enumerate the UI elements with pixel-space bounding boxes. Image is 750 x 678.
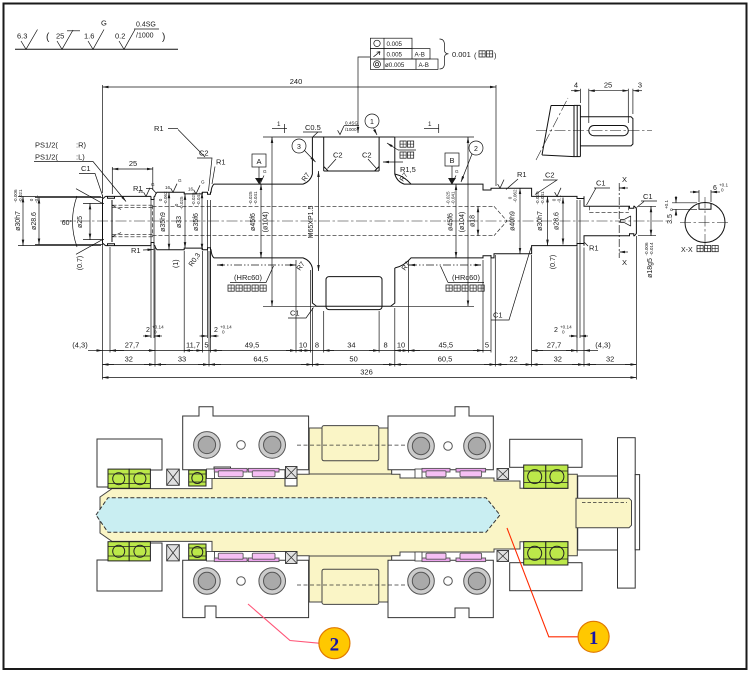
svg-text:-0.041: -0.041	[451, 191, 456, 204]
svg-text:ø18g5: ø18g5	[647, 258, 654, 278]
svg-text:0: 0	[154, 330, 157, 335]
svg-text:PS1/2(: PS1/2(	[35, 153, 58, 162]
svg-text:X: X	[622, 175, 627, 184]
svg-text:16: 16	[138, 189, 144, 194]
svg-text:G: G	[101, 19, 107, 28]
svg-text:1: 1	[428, 121, 432, 128]
svg-text:PS1/2(: PS1/2(	[35, 141, 58, 150]
svg-text:27,7: 27,7	[547, 341, 562, 350]
svg-text:(4,3): (4,3)	[595, 341, 611, 350]
svg-text:45,5: 45,5	[438, 341, 453, 350]
svg-text:0: 0	[669, 208, 674, 211]
svg-text:-0.041: -0.041	[540, 191, 545, 204]
svg-text:R1: R1	[216, 158, 226, 167]
svg-text:0.4SG: 0.4SG	[136, 22, 156, 29]
svg-text:ø30h7: ø30h7	[537, 211, 544, 231]
svg-text:25: 25	[56, 32, 64, 41]
svg-text:ø35f6: ø35f6	[193, 213, 200, 231]
svg-text:ø30h7: ø30h7	[15, 211, 22, 231]
svg-text:0.005: 0.005	[387, 41, 403, 48]
svg-text:10: 10	[299, 341, 307, 350]
svg-text:-0.1: -0.1	[34, 195, 39, 203]
svg-text:C1: C1	[596, 179, 606, 188]
svg-text:(0.7): (0.7)	[77, 256, 84, 270]
svg-text:0: 0	[721, 188, 724, 193]
svg-text:C2: C2	[333, 151, 343, 160]
svg-text:C2: C2	[199, 149, 209, 158]
svg-text:5: 5	[204, 341, 208, 350]
svg-text:(ø104): (ø104)	[263, 212, 270, 233]
svg-text:(0.7): (0.7)	[550, 255, 557, 269]
svg-text:49,5: 49,5	[245, 341, 260, 350]
svg-text:1: 1	[589, 628, 599, 649]
svg-text:C1: C1	[493, 311, 503, 320]
svg-text:32: 32	[125, 355, 133, 364]
svg-text:X-X: X-X	[681, 247, 693, 254]
svg-text:16: 16	[165, 185, 171, 190]
svg-text:C2: C2	[545, 171, 555, 180]
svg-text:/1000: /1000	[345, 127, 357, 132]
svg-text:ø33: ø33	[176, 216, 183, 228]
svg-text:16: 16	[188, 187, 194, 192]
svg-text:1.6: 1.6	[84, 32, 94, 41]
svg-text:ø0.005: ø0.005	[385, 62, 405, 69]
svg-text:ø35h9: ø35h9	[160, 212, 167, 232]
svg-text:1: 1	[370, 119, 374, 126]
svg-text:5: 5	[485, 341, 489, 350]
svg-text:ø18: ø18	[470, 215, 477, 227]
svg-text:(HRc60): (HRc60)	[234, 273, 262, 282]
svg-text:0: 0	[222, 330, 225, 335]
svg-text::R): :R)	[76, 141, 87, 150]
svg-text:-0.041: -0.041	[253, 191, 258, 204]
svg-text:A-B: A-B	[419, 62, 429, 69]
svg-text:25: 25	[604, 81, 612, 90]
svg-text:0: 0	[562, 330, 565, 335]
svg-text:60,5: 60,5	[438, 355, 453, 364]
svg-text:C1: C1	[643, 192, 653, 201]
svg-text:R1: R1	[131, 246, 141, 255]
svg-text:326: 326	[360, 368, 373, 377]
svg-text:25: 25	[129, 159, 137, 168]
svg-text:R1: R1	[589, 244, 599, 253]
svg-text:6.3: 6.3	[17, 32, 27, 41]
svg-text:10: 10	[397, 341, 405, 350]
svg-text:/1000: /1000	[136, 33, 154, 40]
svg-text:(HRc60): (HRc60)	[452, 273, 480, 282]
svg-text:2: 2	[214, 327, 218, 334]
svg-text:C1: C1	[290, 309, 300, 318]
svg-text:64,5: 64,5	[253, 355, 268, 364]
svg-text:2: 2	[474, 146, 478, 153]
svg-text:(4,3): (4,3)	[72, 341, 88, 350]
svg-text:A: A	[256, 157, 261, 166]
svg-text:G: G	[263, 169, 267, 174]
svg-text:-0.062: -0.062	[513, 189, 518, 202]
svg-text:3.5: 3.5	[667, 214, 674, 224]
svg-text:0.005: 0.005	[387, 51, 403, 58]
svg-text:6: 6	[713, 185, 717, 192]
svg-text:A-B: A-B	[415, 51, 425, 58]
svg-text:50: 50	[349, 355, 357, 364]
svg-text:2: 2	[146, 327, 150, 334]
svg-text:240: 240	[290, 77, 303, 86]
svg-text:C0.5: C0.5	[305, 123, 321, 132]
svg-text:G: G	[151, 182, 155, 187]
svg-text:R1: R1	[517, 170, 527, 179]
svg-text:ø25: ø25	[77, 216, 84, 228]
svg-text:-0.014: -0.014	[649, 242, 654, 255]
svg-text:2: 2	[554, 327, 558, 334]
svg-text:-0.062: -0.062	[163, 191, 168, 204]
svg-text:G: G	[201, 180, 205, 185]
svg-text:B: B	[449, 156, 454, 165]
svg-text:27,7: 27,7	[125, 341, 140, 350]
svg-text:ø28.6: ø28.6	[31, 212, 38, 230]
svg-text:G: G	[455, 169, 459, 174]
svg-text:33: 33	[178, 355, 186, 364]
svg-text:): )	[162, 32, 165, 43]
svg-text:R1: R1	[154, 124, 164, 133]
svg-text:32: 32	[554, 355, 562, 364]
svg-text:8: 8	[315, 341, 319, 350]
svg-text:0.001: 0.001	[452, 50, 471, 59]
svg-text:2: 2	[330, 634, 340, 655]
svg-text:(1): (1)	[173, 259, 180, 268]
svg-text::L): :L)	[76, 153, 85, 162]
svg-text:60°: 60°	[62, 219, 73, 227]
svg-text:8: 8	[384, 341, 388, 350]
svg-text:C1: C1	[81, 164, 91, 173]
svg-text:(ø104): (ø104)	[459, 212, 466, 233]
svg-text:-0.021: -0.021	[18, 189, 23, 202]
svg-text:ø28.6: ø28.6	[554, 212, 561, 230]
svg-text:11,7: 11,7	[186, 341, 200, 350]
svg-text:1: 1	[277, 121, 281, 128]
svg-text:3: 3	[297, 144, 301, 151]
svg-text:0.2: 0.2	[115, 32, 125, 41]
svg-text:+0.1: +0.1	[664, 199, 669, 209]
svg-text:X: X	[622, 258, 627, 267]
svg-text:4: 4	[574, 81, 578, 90]
svg-text:ø45f6: ø45f6	[250, 213, 257, 231]
svg-text:22: 22	[509, 355, 517, 364]
svg-text:ø45f6: ø45f6	[448, 213, 455, 231]
svg-text:G: G	[178, 178, 182, 183]
svg-text:-0.041: -0.041	[196, 192, 201, 205]
svg-text:-0.025: -0.025	[179, 196, 184, 209]
svg-text:34: 34	[347, 341, 355, 350]
svg-text:C2: C2	[362, 151, 372, 160]
svg-text:M65XP1.5: M65XP1.5	[308, 206, 315, 239]
svg-text:ø40h9: ø40h9	[510, 211, 517, 231]
svg-text:32: 32	[606, 355, 614, 364]
svg-text:3: 3	[638, 81, 642, 90]
svg-text:0.4SG: 0.4SG	[345, 121, 358, 126]
